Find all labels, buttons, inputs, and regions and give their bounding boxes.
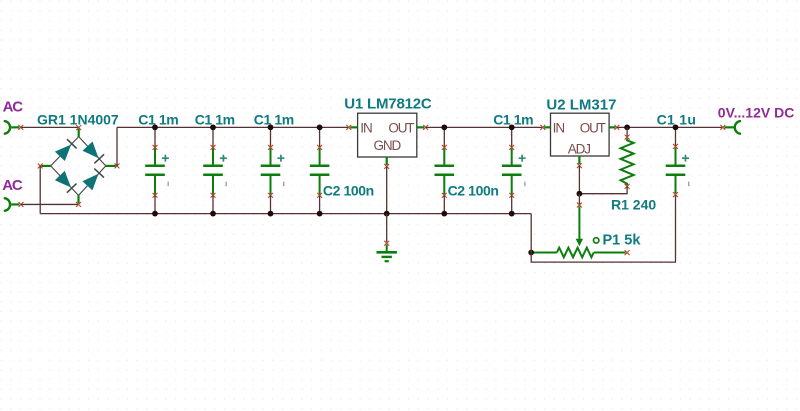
wire stub C1c to bottom rail <box>270 195 272 213</box>
junction node C1a top <box>152 124 158 130</box>
U1 pin OUT <box>417 125 428 130</box>
wire bottom rail to ground symbol <box>386 214 388 242</box>
label R1 240 <box>611 197 656 213</box>
label AC (bottom input) <box>2 177 23 194</box>
wire R1 bottom to ADJ node <box>579 186 627 193</box>
svg-text:C1 1m: C1 1m <box>195 111 235 127</box>
connector J2 AC bottom input <box>5 198 24 211</box>
wire AC bottom net (J2 to bridge AC2 pin) <box>21 203 79 205</box>
wire top rail U1 OUT to U2 IN <box>426 126 543 128</box>
wire U1 GND pin down to bottom rail <box>386 166 388 213</box>
ground symbol <box>377 241 397 261</box>
diode D3 (left to bottom arm of GR1) <box>55 171 77 193</box>
label 0V...12V DC <box>718 104 795 120</box>
svg-text:U2 LM317: U2 LM317 <box>546 96 616 113</box>
U1 pin GND <box>384 157 389 169</box>
junction node C2b top <box>441 124 447 130</box>
junction node C2b bottom <box>441 211 447 217</box>
label GR1 1N4007 <box>37 111 119 127</box>
junction node C2a bottom <box>317 211 323 217</box>
label C1 1m (fourth) <box>493 112 533 128</box>
wire ADJ node to P1 wiper pin <box>578 194 580 205</box>
diode D1 (left to top arm of GR1) <box>55 139 77 161</box>
wire AC top net (J1 to bridge AC1 pin) <box>21 126 79 128</box>
bridge GR1 right pin (plus) <box>105 163 119 168</box>
label C2 100n (first) <box>323 182 374 198</box>
U1 pin IN <box>346 125 357 130</box>
svg-text:AC: AC <box>2 177 23 194</box>
wire stub C2a to bottom rail <box>319 195 321 213</box>
label AC (top input) <box>3 99 24 116</box>
junction node C1e top <box>673 124 679 130</box>
wire stub C2b to bottom rail <box>443 195 445 213</box>
label C1 1m (second) <box>195 111 235 127</box>
wire stub top rail to C1c <box>270 127 272 147</box>
wire plus net: bridge right pin up to top rail <box>116 127 118 166</box>
wire stub top rail to C1b <box>212 127 214 147</box>
P1 wiper terminal circle <box>594 238 599 243</box>
wire stub top rail to C1a <box>154 127 156 147</box>
junction node C1c bottom <box>268 211 274 217</box>
wire stub top rail to C1e <box>675 127 677 146</box>
diode D4 (bottom to right arm of GR1) <box>82 169 104 191</box>
connector J3 DC output <box>720 121 740 134</box>
P1 wiper arrow <box>576 203 583 247</box>
label U1 LM7812C <box>344 95 432 112</box>
svg-text:AC: AC <box>3 99 24 116</box>
junction node C2a top <box>317 124 323 130</box>
svg-text:C2 100n: C2 100n <box>323 182 374 198</box>
bridge GR1 left pin (minus) <box>38 163 52 168</box>
wire U2 ADJ pin to ADJ node <box>578 166 580 194</box>
label C1 1u <box>657 111 697 127</box>
wire stub top rail to C1d <box>511 127 513 147</box>
junction node R1 top on output rail <box>624 124 630 130</box>
potentiometer P1 5k body <box>533 248 630 258</box>
capacitor C1c 1m <box>261 145 285 198</box>
junction node C1d top <box>509 124 515 130</box>
bridge rectifier GR1 diamond outline <box>51 137 106 196</box>
wire return loop bottom rail to C1e minus <box>531 195 675 263</box>
label U2 LM317 <box>546 96 616 113</box>
svg-text:GND: GND <box>373 138 401 153</box>
wire stub top rail to C2a <box>319 127 321 147</box>
wire bottom rail (0V bus) <box>40 213 531 215</box>
resistor R1 240 <box>621 135 634 189</box>
wire stub top rail to C2b <box>443 127 445 147</box>
diode D2 (top to right arm of GR1) <box>83 142 105 164</box>
junction node C1c top <box>268 124 274 130</box>
svg-text:0V...12V DC: 0V...12V DC <box>718 104 795 120</box>
svg-text:C1 1m: C1 1m <box>254 111 294 127</box>
U2 pin OUT <box>609 125 619 130</box>
svg-text:U1 LM7812C: U1 LM7812C <box>344 95 432 112</box>
junction node P1 left on return wire <box>528 250 534 256</box>
capacitor C2a 100n <box>310 145 330 198</box>
capacitor C2b 100n <box>435 145 455 198</box>
svg-text:IN: IN <box>360 121 372 136</box>
svg-text:C2 100n: C2 100n <box>448 182 499 198</box>
svg-text:GR1 1N4007: GR1 1N4007 <box>37 111 119 127</box>
junction node C1a bottom <box>152 211 158 217</box>
junction node C1b top <box>210 124 216 130</box>
wire top rail U2 OUT to output <box>617 126 723 128</box>
svg-text:C1 1m: C1 1m <box>138 111 178 127</box>
bridge GR1 top pin (AC1) <box>76 125 81 137</box>
wire minus net: bridge left pin down to bottom rail <box>39 166 41 214</box>
svg-text:OUT: OUT <box>580 121 606 136</box>
svg-text:IN: IN <box>553 121 565 136</box>
wire stub C1a to bottom rail <box>154 195 156 213</box>
wire stub C1d to bottom rail <box>511 195 513 213</box>
U2 pin ADJ <box>577 156 582 168</box>
wire top rail (unregulated + bus to U1 IN) <box>117 126 349 128</box>
junction node C1d bottom <box>509 211 515 217</box>
bridge GR1 bottom pin (AC2) <box>76 195 81 207</box>
op-amp U1 LM7812C regulator box <box>358 113 417 157</box>
connector J1 AC top input <box>5 121 23 134</box>
wire stub rail to R1 <box>626 127 628 137</box>
label C1 1m (third) <box>254 111 294 127</box>
U2 pin IN <box>540 125 550 130</box>
capacitor C1d 1m <box>502 145 526 198</box>
label C1 1m (first) <box>138 111 178 127</box>
label P1 5k <box>603 233 642 249</box>
junction node ADJ <box>577 191 583 197</box>
label C2 100n (second) <box>448 182 499 198</box>
svg-text:OUT: OUT <box>388 121 414 136</box>
capacitor C1a 1m <box>145 145 169 198</box>
wire stub C1b to bottom rail <box>212 195 214 213</box>
junction node C1b bottom <box>210 211 216 217</box>
svg-text:ADJ: ADJ <box>568 142 591 157</box>
svg-text:R1 240: R1 240 <box>611 197 656 213</box>
capacitor C1e 1u <box>666 144 689 197</box>
junction node GND net on bottom rail <box>384 211 390 217</box>
op-amp U2 LM317 regulator box <box>551 113 610 156</box>
svg-text:P1 5k: P1 5k <box>603 233 642 249</box>
capacitor C1b 1m <box>203 145 227 198</box>
